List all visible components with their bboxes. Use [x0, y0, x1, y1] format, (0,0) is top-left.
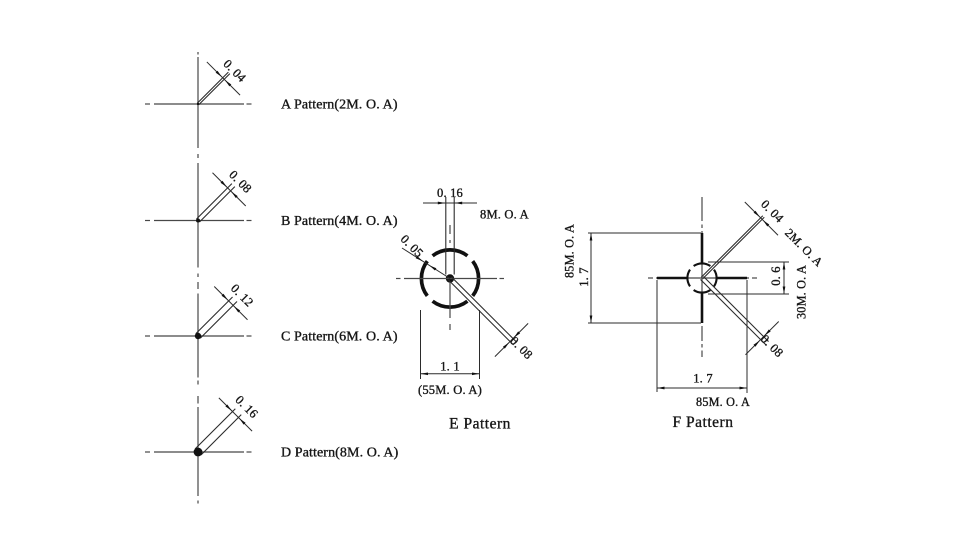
svg-text:C Pattern(6M. O. A): C Pattern(6M. O. A) — [281, 330, 398, 345]
E pattern 0.05 pinch arrows — [416, 256, 423, 261]
svg-text:A Pattern(2M. O. A): A Pattern(2M. O. A) — [281, 98, 398, 113]
F pattern thick cross arms — [701, 233, 704, 263]
E pattern vertical centerline below dot — [449, 282, 451, 318]
D pattern diagonal width lines — [195, 409, 235, 449]
F pattern horizontal centerline — [648, 277, 653, 279]
svg-text:85M. O. A: 85M. O. A — [696, 395, 750, 409]
E pattern vertical post edges (0.16 wide) — [445, 197, 447, 275]
E pattern 1.1 extension lines — [420, 310, 422, 379]
F pattern left 1.7 dimension line with arrows — [590, 233, 592, 323]
svg-text:1. 7: 1. 7 — [577, 267, 591, 287]
E pattern ring (4 arcs with diagonal gaps) — [473, 261, 479, 296]
svg-text:30M. O. A: 30M. O. A — [795, 265, 809, 319]
A pattern horizontal centerline — [145, 103, 150, 105]
F pattern 0.08 dimension line with arrows — [745, 321, 778, 354]
D pattern center dot — [194, 448, 203, 457]
svg-text:0. 16: 0. 16 — [437, 186, 463, 200]
E pattern diagonal line edges (0.08 wide) — [451, 277, 516, 342]
svg-text:B Pattern(4M. O. A): B Pattern(4M. O. A) — [281, 214, 398, 229]
E pattern center dot — [446, 274, 454, 282]
svg-text:1. 1: 1. 1 — [440, 360, 460, 374]
A pattern dimension line with arrows — [207, 62, 240, 95]
F pattern center ring (4 arcs with diagonal gaps) — [714, 270, 717, 287]
C pattern center dot — [195, 333, 201, 339]
E pattern 1.1 dimension line with arrows — [421, 373, 480, 375]
svg-text:E Pattern: E Pattern — [449, 416, 511, 433]
F pattern lower diagonal line edges (0.08 wide) — [703, 277, 768, 342]
C pattern diagonal width lines — [196, 297, 233, 334]
B pattern horizontal centerline — [145, 220, 150, 222]
svg-text:8M. O. A: 8M. O. A — [480, 208, 529, 222]
F pattern upper diagonal line edges (0.04 wide) — [701, 216, 763, 278]
F pattern left 1.7 extension lines — [588, 232, 701, 234]
F pattern 0.6 dimension line with arrows — [783, 262, 785, 294]
F pattern 0.04 dimension line with arrows — [745, 202, 778, 235]
svg-text:85M. O. A: 85M. O. A — [563, 224, 577, 278]
E pattern vertical centerline dash inside post — [449, 225, 451, 234]
svg-text:(55M. O. A): (55M. O. A) — [418, 383, 482, 397]
E pattern 0.16 dimension line and arrows — [423, 202, 477, 204]
A pattern diagonal width lines — [197, 72, 228, 103]
E pattern 0.05 ring-width leader line — [402, 248, 450, 279]
E pattern 0.08 dimension line with arrows — [495, 323, 528, 356]
svg-text:0. 6: 0. 6 — [769, 266, 783, 286]
C pattern horizontal centerline — [145, 335, 150, 337]
F pattern 0.6 extension lines — [708, 261, 789, 263]
vertical centerline of A-D patterns (dash-dot) — [197, 52, 199, 55]
D pattern horizontal centerline — [145, 451, 150, 453]
svg-text:F Pattern: F Pattern — [673, 414, 734, 431]
svg-text:D Pattern(8M. O. A): D Pattern(8M. O. A) — [281, 446, 399, 461]
C pattern dimension line with arrows — [214, 287, 247, 320]
B pattern center dot — [196, 219, 200, 223]
F pattern vertical centerline (dash-dot) — [701, 197, 703, 221]
svg-text:1. 7: 1. 7 — [693, 372, 713, 386]
A pattern center dot — [197, 103, 199, 105]
B pattern dimension line with arrows — [213, 173, 246, 206]
F pattern bottom 1.7 dimension line with arrows — [657, 387, 747, 389]
F pattern bottom 1.7 extension lines — [656, 280, 658, 392]
B pattern diagonal width lines — [197, 184, 232, 219]
D pattern dimension line with arrows — [219, 398, 252, 431]
E pattern horizontal centerline — [396, 278, 401, 280]
